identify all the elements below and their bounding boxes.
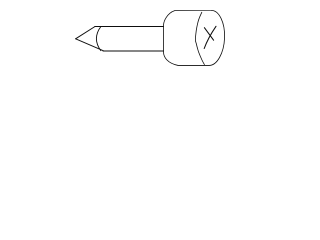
nail clipart drawing (0, 0, 300, 76)
shank bottom line (103, 50, 164, 52)
cone base arc (96, 27, 100, 51)
nail tip lower edge (76, 39, 104, 51)
nail head outline (barrel + face right side, closed) (164, 10, 225, 65)
nail head face left arc (195, 12, 204, 64)
face X stroke slash (204, 26, 216, 48)
shank top line (95, 26, 164, 28)
face X stroke backslash (204, 28, 213, 41)
nail tip upper edge (76, 27, 95, 39)
